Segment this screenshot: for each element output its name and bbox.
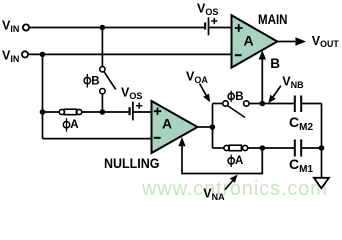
svg-text:A: A bbox=[162, 116, 172, 132]
wire VIN+ to battery bbox=[29, 27, 204, 29]
junction node CM1 right bbox=[319, 145, 325, 151]
label phiA (bottom switch) bbox=[228, 158, 234, 164]
arrowhead feedback into nulling amp bbox=[178, 137, 185, 146]
svg-text:NULLING: NULLING bbox=[104, 155, 160, 171]
svg-text:A: A bbox=[235, 155, 243, 167]
svg-text:A: A bbox=[70, 119, 78, 131]
svg-text:MAIN: MAIN bbox=[258, 12, 288, 27]
node VIN- terminal bbox=[22, 51, 28, 57]
wire to nulling - input bbox=[43, 138, 152, 140]
op-amp main amplifier bbox=[232, 15, 278, 67]
wire nulling output bbox=[198, 126, 213, 128]
label + input main bbox=[235, 24, 243, 32]
junction node phiA branch bbox=[40, 109, 46, 115]
switch phiB vertical bottom contact bbox=[100, 89, 105, 94]
wire to switch phiA bbox=[43, 111, 60, 113]
wire left vertical from VIN- junction bbox=[42, 54, 44, 138]
junction node VNA bbox=[260, 145, 266, 151]
switch phiA right contact bbox=[77, 109, 82, 114]
arrow VNB bbox=[273, 86, 281, 98]
op-amp nulling amplifier bbox=[152, 101, 198, 153]
switch phiA closed bar bbox=[64, 109, 76, 115]
label phiB (right switch) bbox=[228, 93, 234, 99]
wire feedback loop bbox=[182, 145, 262, 174]
svg-text:B: B bbox=[270, 56, 280, 71]
label + of nulling VOS battery bbox=[136, 103, 142, 109]
switch phiA bottom left contact bbox=[224, 145, 229, 150]
switch phiB vertical top contact bbox=[100, 67, 105, 72]
wire VIN- to main amp bbox=[28, 53, 231, 55]
battery VOS main short plate bbox=[204, 23, 206, 30]
switch phiA bottom closed bar bbox=[229, 145, 241, 151]
arrow VNA bbox=[225, 181, 233, 190]
arrowhead B bbox=[259, 51, 266, 60]
wire CM2 to right vertical bbox=[302, 103, 322, 105]
arrowhead VOUT bbox=[296, 37, 307, 45]
label + input nulling bbox=[154, 108, 161, 115]
switch phiA left contact bbox=[59, 109, 64, 114]
label phiB (vertical switch) bbox=[84, 77, 90, 83]
wire contact to CM2 bbox=[249, 103, 294, 105]
svg-text:B: B bbox=[235, 91, 243, 103]
junction node nulling + input bbox=[100, 109, 106, 115]
battery VOS nulling tall plate bbox=[132, 102, 134, 121]
label phiA (left switch) bbox=[63, 122, 69, 128]
wire to bottom switch phiA bbox=[213, 147, 224, 149]
wire switch to CM1 bbox=[248, 147, 295, 149]
switch phiB vertical blade bbox=[104, 72, 116, 90]
wire VIN+ junction down to switch phiB bbox=[101, 28, 103, 67]
wire right vertical bbox=[321, 104, 323, 178]
wire switch phiA to node bbox=[82, 111, 103, 113]
switch phiB right left contact bbox=[223, 101, 228, 106]
junction node on VIN+ wire bbox=[100, 25, 106, 31]
label - input main bbox=[235, 54, 242, 56]
wire to switch phiB right bbox=[213, 103, 223, 105]
capacitor CM2 bbox=[294, 96, 296, 113]
wire switch phiB to nulling + input bbox=[101, 94, 103, 112]
wire battery to main amp bbox=[209, 27, 232, 29]
junction node on VIN- wire bbox=[40, 52, 46, 58]
wire output node vertical bbox=[212, 104, 214, 149]
wire battery to nulling amp bbox=[133, 111, 152, 113]
wire node to nulling battery bbox=[102, 111, 128, 113]
switch phiB right right contact bbox=[244, 101, 249, 106]
label - input nulling bbox=[154, 137, 161, 139]
svg-text:B: B bbox=[91, 75, 99, 87]
switch phiA bottom right contact bbox=[243, 145, 248, 150]
capacitor CM1 bbox=[294, 140, 296, 157]
junction node nulling output bbox=[210, 124, 216, 130]
switch phiB right blade bbox=[227, 106, 245, 118]
label + of main VOS battery bbox=[211, 18, 217, 24]
wire B arrow to main amp bbox=[261, 58, 263, 104]
battery VOS main tall plate bbox=[208, 17, 210, 35]
node VIN+ terminal bbox=[23, 24, 29, 30]
ground bbox=[314, 178, 329, 189]
battery VOS nulling short plate bbox=[129, 107, 131, 115]
junction node VNB bbox=[260, 101, 266, 107]
wire VOUT bbox=[277, 41, 297, 43]
arrow VOA bbox=[200, 84, 207, 96]
svg-text:A: A bbox=[244, 33, 254, 49]
wire CM1 to right vertical bbox=[302, 147, 322, 149]
